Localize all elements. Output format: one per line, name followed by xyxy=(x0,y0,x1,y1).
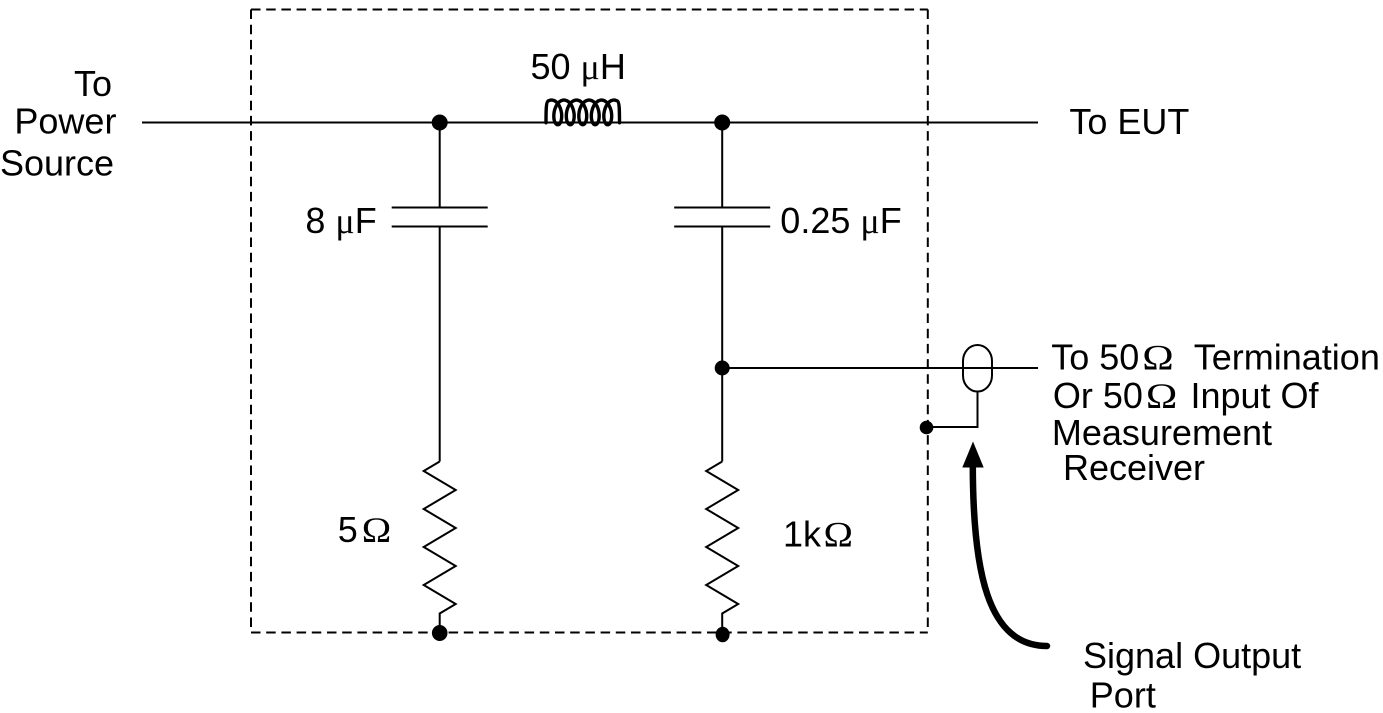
svg-text:0.25 μF: 0.25 μF xyxy=(780,200,901,241)
svg-text:Or 50Ω Input Of: Or 50Ω Input Of xyxy=(1053,375,1320,416)
svg-text:1kΩ: 1kΩ xyxy=(783,514,853,555)
svg-text:Signal Output: Signal Output xyxy=(1083,635,1301,676)
svg-text:To EUT: To EUT xyxy=(1069,101,1189,142)
svg-text:50 μH: 50 μH xyxy=(531,46,626,87)
svg-text:Receiver: Receiver xyxy=(1063,447,1205,488)
svg-text:8 μF: 8 μF xyxy=(305,200,376,241)
svg-text:Power: Power xyxy=(14,100,116,141)
svg-text:Port: Port xyxy=(1090,675,1156,713)
svg-text:Source: Source xyxy=(0,143,114,184)
svg-text:To 50Ω Termination: To 50Ω Termination xyxy=(1051,337,1380,378)
svg-text:5Ω: 5Ω xyxy=(338,509,392,550)
svg-text:To: To xyxy=(74,63,112,104)
